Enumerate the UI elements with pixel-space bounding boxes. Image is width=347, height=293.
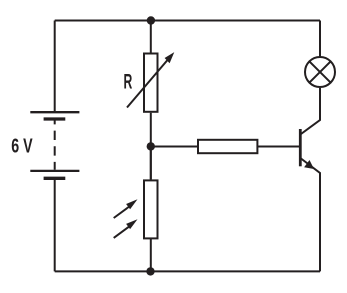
base resistor body xyxy=(198,140,257,153)
node B junction dot (middle) xyxy=(147,142,155,150)
transistor Q1 collector lead xyxy=(300,88,320,135)
variable resistor R arrow shaft xyxy=(127,57,171,108)
wire left vertical from top rail to battery positive xyxy=(54,21,56,112)
node A junction dot (top) xyxy=(147,16,155,24)
svg-text:R: R xyxy=(124,70,133,93)
battery B1 cell2 long plate xyxy=(30,170,79,172)
wire middle branch top (node A to resistor R) xyxy=(150,21,152,53)
battery B1 cell1 short plate xyxy=(44,117,66,120)
wire bottom rail xyxy=(55,270,320,272)
wire node B to LDR xyxy=(150,146,152,179)
lamp L1 cross stroke 2 xyxy=(309,61,330,82)
lamp L1 circle xyxy=(305,57,335,87)
LDR body xyxy=(144,180,158,238)
resistor R body xyxy=(144,54,158,112)
transistor Q1 emitter arrowhead xyxy=(304,160,314,169)
battery B1 dashed link between cells xyxy=(54,120,56,170)
battery B1 cell1 long plate xyxy=(30,111,79,113)
LDR light arrow 1 shaft xyxy=(114,205,132,219)
transistor Q1 emitter lead xyxy=(300,158,320,271)
wire left vertical from battery negative to bottom rail xyxy=(54,180,56,272)
LDR light arrow 2 head xyxy=(126,219,137,229)
wire node B to base resistor xyxy=(151,146,197,148)
battery B1 cell2 short plate xyxy=(44,177,66,180)
LDR light arrow 2 shaft xyxy=(114,224,132,238)
wire resistor R to node B xyxy=(150,113,152,180)
wire top rail to lamp xyxy=(319,21,321,58)
svg-text:6 V: 6 V xyxy=(11,135,33,157)
transistor Q1 base bar xyxy=(299,129,302,166)
wire base resistor to transistor base xyxy=(257,146,299,148)
lamp L1 cross stroke 1 xyxy=(309,61,330,82)
variable resistor R arrowhead xyxy=(165,52,175,63)
LDR light arrow 1 head xyxy=(126,199,137,209)
node C junction dot (bottom) xyxy=(146,267,154,275)
wire LDR to bottom rail xyxy=(150,238,152,271)
wire top rail xyxy=(55,20,320,22)
